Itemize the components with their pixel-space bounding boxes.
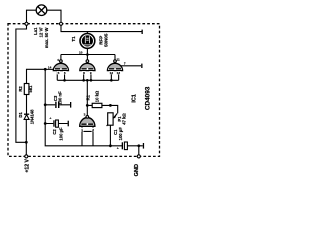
svg-text:D1: D1	[18, 112, 23, 118]
svg-text:CD4093: CD4093	[144, 86, 151, 110]
svg-text:6: 6	[64, 71, 66, 75]
svg-text:1: 1	[81, 128, 83, 132]
svg-text:4: 4	[57, 58, 59, 62]
svg-text:GND: GND	[134, 164, 140, 176]
svg-text:10: 10	[79, 50, 83, 54]
svg-text:12 V/: 12 V/	[39, 27, 44, 38]
svg-text:La1: La1	[33, 27, 38, 35]
svg-text:IC1: IC1	[132, 94, 138, 102]
svg-text:11: 11	[117, 57, 121, 61]
svg-text:100 µF: 100 µF	[118, 127, 123, 141]
svg-text:3: 3	[84, 112, 86, 116]
svg-text:8: 8	[83, 71, 85, 75]
svg-text:R2: R2	[18, 86, 23, 92]
svg-text:14: 14	[48, 66, 52, 70]
svg-text:12: 12	[110, 71, 114, 75]
svg-text:9: 9	[90, 71, 92, 75]
svg-text:100 µF: 100 µF	[59, 127, 64, 141]
svg-text:C2: C2	[52, 129, 57, 135]
svg-text:+12 V: +12 V	[25, 159, 31, 173]
svg-text:max. 50 W: max. 50 W	[44, 28, 49, 49]
svg-text:T1: T1	[71, 36, 76, 42]
svg-text:R1: R1	[85, 94, 90, 100]
svg-text:100 nF: 100 nF	[58, 91, 63, 105]
svg-text:2: 2	[92, 128, 94, 132]
svg-text:13: 13	[117, 71, 121, 75]
svg-text:5k1: 5k1	[28, 85, 33, 93]
svg-text:50N05: 50N05	[104, 33, 109, 47]
svg-text:10 kΩ: 10 kΩ	[94, 90, 99, 102]
svg-text:5: 5	[58, 71, 60, 75]
svg-text:7: 7	[124, 62, 126, 66]
svg-text:47 kΩ: 47 kΩ	[121, 113, 126, 125]
svg-text:1N4148: 1N4148	[30, 109, 35, 124]
